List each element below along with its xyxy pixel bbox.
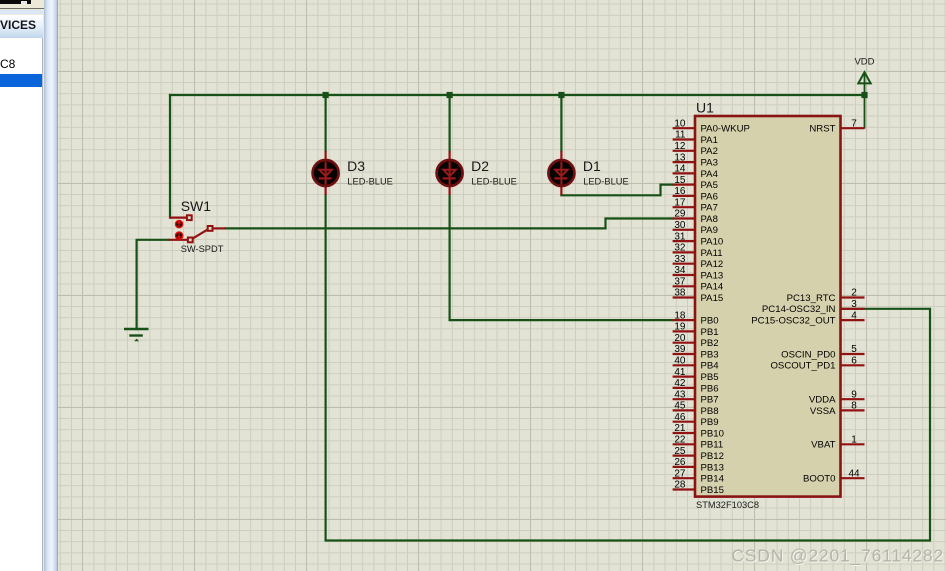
svg-text:SW-SPDT: SW-SPDT — [181, 244, 224, 254]
pin 18 PB0 (left) — [673, 310, 719, 326]
svg-text:PB2: PB2 — [701, 338, 719, 349]
svg-text:D3: D3 — [347, 158, 365, 174]
svg-text:33: 33 — [674, 254, 686, 265]
pin 2 PC13_RTC (right) — [787, 288, 865, 304]
svg-text:16: 16 — [674, 186, 686, 197]
svg-text:SW1: SW1 — [181, 198, 212, 214]
wire: D3 cathode down to bottom rail, along bottom, up right side to PC14-OSC32_IN pin 3 — [326, 195, 930, 541]
reference label D1 — [583, 158, 601, 174]
LED D1 LED-BLUE — [548, 151, 574, 195]
op-amp U1 STM32F103C8 microcontroller body — [695, 116, 841, 497]
pin 17 PA7 (left) — [673, 197, 718, 213]
svg-text:1: 1 — [851, 435, 857, 446]
wire: bus to D2 anode — [449, 95, 451, 151]
svg-text:NRST: NRST — [809, 124, 835, 135]
svg-text:PA2: PA2 — [701, 146, 718, 157]
wire: bus to SW1 NC terminal (vertical drop) — [169, 95, 171, 218]
svg-text:42: 42 — [674, 378, 686, 389]
wire: D2 cathode down then right to PB0 pin 18 — [450, 195, 673, 320]
splitter strip — [44, 0, 58, 571]
svg-text:30: 30 — [674, 220, 686, 231]
svg-text:14: 14 — [674, 164, 686, 175]
svg-text:D1: D1 — [583, 158, 601, 174]
LED D2 LED-BLUE — [437, 151, 463, 195]
pin 31 PA10 (left) — [673, 231, 724, 247]
svg-text:7: 7 — [851, 118, 857, 129]
pin 6 OSCOUT_PD1 (right) — [770, 356, 864, 372]
svg-text:PB5: PB5 — [701, 372, 719, 383]
pin 32 PA11 (left) — [673, 243, 723, 259]
svg-text:PC13_RTC: PC13_RTC — [787, 293, 836, 304]
wire: SW1 pole left then down to ground — [137, 240, 169, 329]
svg-text:PB4: PB4 — [701, 361, 720, 372]
pin 1 VBAT (right) — [811, 435, 864, 451]
svg-text:PA1: PA1 — [701, 135, 718, 146]
parts list — [0, 38, 43, 571]
svg-text:PB10: PB10 — [701, 428, 724, 439]
svg-text:11: 11 — [675, 130, 686, 141]
pin 28 PB15 (left) — [673, 480, 724, 496]
pin 26 PB13 (left) — [673, 457, 724, 473]
svg-text:PA5: PA5 — [701, 180, 718, 191]
pin 12 PA2 (left) — [673, 141, 718, 157]
svg-text:20: 20 — [674, 333, 686, 344]
svg-text:STM32F103C8: STM32F103C8 — [696, 500, 759, 510]
svg-text:CSDN @2201_76114282: CSDN @2201_76114282 — [731, 546, 944, 567]
svg-text:VDDA: VDDA — [809, 395, 836, 406]
svg-text:43: 43 — [674, 389, 686, 400]
SW1 interactive toggle actuator (red circles with arrows) — [176, 221, 183, 240]
svg-text:22: 22 — [674, 435, 686, 446]
svg-text:PB9: PB9 — [701, 417, 719, 428]
svg-text:15: 15 — [674, 175, 686, 186]
svg-text:29: 29 — [674, 209, 686, 220]
pin 13 PA3 (left) — [673, 152, 718, 168]
svg-text:40: 40 — [674, 356, 686, 367]
junction node on VDD bus at x=449.6 — [447, 92, 453, 98]
pin 40 PB4 (left) — [673, 356, 720, 372]
svg-text:LED-BLUE: LED-BLUE — [347, 177, 392, 187]
svg-text:19: 19 — [674, 322, 686, 333]
pin 33 PA12 (left) — [673, 254, 724, 270]
wire: VDD symbol stem down to NRST pin 7 — [864, 74, 866, 128]
svg-text:6: 6 — [851, 356, 857, 367]
svg-text:46: 46 — [674, 412, 686, 423]
svg-text:PB3: PB3 — [701, 349, 719, 360]
pin 30 PA9 (left) — [673, 220, 718, 236]
svg-text:D2: D2 — [471, 158, 489, 174]
svg-text:3: 3 — [851, 299, 857, 310]
reference label D3 — [347, 158, 365, 174]
svg-text:VDD: VDD — [854, 57, 874, 68]
value label LED-BLUE (D3) — [347, 177, 392, 187]
svg-text:VSSA: VSSA — [810, 406, 836, 417]
power symbol VDD (arrow) — [854, 57, 874, 84]
svg-text:PB11: PB11 — [701, 440, 724, 451]
value label LED-BLUE (D1) — [583, 177, 628, 187]
svg-text:PA4: PA4 — [701, 169, 719, 180]
svg-text:8: 8 — [851, 401, 857, 412]
ground symbol — [124, 329, 149, 341]
svg-text:10: 10 — [674, 118, 686, 129]
svg-text:9: 9 — [851, 389, 857, 400]
pin 27 PB14 (left) — [673, 468, 725, 484]
pin 41 PB5 (left) — [673, 367, 719, 383]
svg-text:PB0: PB0 — [701, 316, 719, 327]
svg-text:PB1: PB1 — [701, 327, 719, 338]
pin 21 PB10 (left) — [673, 423, 724, 439]
svg-text:5: 5 — [851, 344, 857, 355]
reference label D2 — [471, 158, 489, 174]
svg-text:PC15-OSC32_OUT: PC15-OSC32_OUT — [751, 316, 835, 327]
reference label U1 — [696, 100, 714, 116]
list entry C8 (STM32F103C8 clipped) — [0, 57, 42, 70]
pin 11 PA1 (left) — [673, 130, 718, 146]
pin 8 VSSA (right) — [810, 401, 865, 417]
svg-text:PA12: PA12 — [701, 259, 724, 270]
svg-text:27: 27 — [674, 468, 686, 479]
wire: SW1 NO contact right then up to PA8 pin 29 — [225, 219, 672, 229]
svg-text:12: 12 — [674, 141, 686, 152]
svg-text:PC14-OSC32_IN: PC14-OSC32_IN — [762, 304, 836, 315]
svg-text:PA3: PA3 — [701, 158, 718, 169]
svg-text:21: 21 — [674, 423, 686, 434]
pin 22 PB11 (left) — [673, 435, 724, 451]
pin 20 PB2 (left) — [673, 333, 719, 349]
svg-text:13: 13 — [674, 152, 686, 163]
svg-text:PB6: PB6 — [701, 383, 719, 394]
wire: VDD top power bus — [170, 94, 865, 96]
svg-text:PA13: PA13 — [701, 270, 724, 281]
svg-text:PB13: PB13 — [701, 462, 724, 473]
svg-text:PA6: PA6 — [701, 191, 718, 202]
left DEVICES panel (Proteus object selector) — [0, 0, 58, 571]
wire: D1 cathode right then up to PA5 pin 15 — [561, 185, 672, 196]
svg-text:OSCOUT_PD1: OSCOUT_PD1 — [770, 361, 835, 372]
pin 16 PA6 (left) — [673, 186, 718, 202]
pin 3 PC14-OSC32_IN (right) — [762, 299, 865, 315]
svg-text:28: 28 — [674, 480, 686, 491]
pin 14 PA4 (left) — [673, 164, 719, 180]
top widget fragment with black icon — [0, 0, 45, 9]
svg-text:BOOT0: BOOT0 — [803, 474, 836, 485]
svg-text:41: 41 — [674, 367, 686, 378]
svg-text:PA0-WKUP: PA0-WKUP — [701, 124, 750, 135]
pin 45 PB8 (left) — [673, 401, 719, 417]
pin 44 BOOT0 (right) — [803, 468, 865, 484]
wire: bus to D3 anode — [325, 95, 327, 151]
svg-text:39: 39 — [674, 344, 686, 355]
value label SW-SPDT — [181, 244, 224, 254]
junction node on VDD bus at x=561.4 — [558, 92, 564, 98]
reference label SW1 — [181, 198, 212, 214]
watermark CSDN — [731, 546, 944, 567]
svg-text:PB15: PB15 — [701, 485, 724, 496]
value label LED-BLUE (D2) — [471, 177, 516, 187]
svg-text:25: 25 — [674, 446, 686, 457]
svg-text:OSCIN_PD0: OSCIN_PD0 — [781, 349, 835, 360]
svg-text:PA14: PA14 — [701, 282, 724, 293]
pin 34 PA13 (left) — [673, 265, 724, 281]
junction node on VDD bus at x=325.6 — [323, 92, 329, 98]
pin 42 PB6 (left) — [673, 378, 719, 394]
svg-text:45: 45 — [674, 401, 686, 412]
pin 19 PB1 (left) — [673, 322, 719, 338]
pin 5 OSCIN_PD0 (right) — [781, 344, 864, 360]
svg-text:PA11: PA11 — [701, 248, 723, 259]
pin 29 PA8 (left) — [673, 209, 718, 225]
pin 9 VDDA (right) — [809, 389, 865, 405]
selected entry highlight — [0, 74, 42, 88]
switch SW1 SW-SPDT — [169, 215, 226, 242]
svg-text:38: 38 — [674, 288, 686, 299]
value label STM32F103C8 — [696, 500, 759, 510]
svg-text:PA7: PA7 — [701, 203, 718, 214]
pin 37 PA14 (left) — [673, 277, 724, 293]
svg-text:PB14: PB14 — [701, 474, 725, 485]
svg-text:PB12: PB12 — [701, 451, 724, 462]
pin 15 PA5 (left) — [673, 175, 718, 191]
pin 38 PA15 (left) — [673, 288, 724, 304]
svg-text:LED-BLUE: LED-BLUE — [471, 177, 516, 187]
svg-text:44: 44 — [848, 468, 860, 479]
svg-text:26: 26 — [674, 457, 686, 468]
wire: bus to D1 anode — [560, 95, 562, 151]
svg-text:PB7: PB7 — [701, 395, 719, 406]
svg-text:32: 32 — [674, 243, 686, 254]
svg-text:VBAT: VBAT — [811, 440, 835, 451]
DEVICES header — [0, 15, 43, 39]
svg-text:31: 31 — [674, 231, 686, 242]
pin 7 NRST (right) — [809, 118, 864, 134]
svg-text:PA8: PA8 — [701, 214, 718, 225]
pin 46 PB9 (left) — [673, 412, 719, 428]
LED D3 LED-BLUE — [313, 151, 339, 195]
svg-text:4: 4 — [851, 310, 857, 321]
junction node on VDD bus at x=864.5 — [861, 92, 867, 98]
svg-text:U1: U1 — [696, 100, 714, 116]
svg-text:PA9: PA9 — [701, 225, 718, 236]
svg-text:PB8: PB8 — [701, 406, 719, 417]
svg-text:2: 2 — [851, 288, 857, 299]
svg-text:34: 34 — [674, 265, 686, 276]
svg-text:18: 18 — [674, 310, 686, 321]
pin 25 PB12 (left) — [673, 446, 724, 462]
svg-text:PA10: PA10 — [701, 237, 724, 248]
pin 39 PB3 (left) — [673, 344, 719, 360]
svg-text:17: 17 — [674, 197, 686, 208]
pin 43 PB7 (left) — [673, 389, 719, 405]
pin 10 PA0-WKUP (left) — [673, 118, 750, 134]
pin 4 PC15-OSC32_OUT (right) — [751, 310, 864, 326]
svg-text:PA15: PA15 — [701, 293, 724, 304]
svg-text:37: 37 — [674, 277, 686, 288]
svg-text:LED-BLUE: LED-BLUE — [583, 177, 628, 187]
